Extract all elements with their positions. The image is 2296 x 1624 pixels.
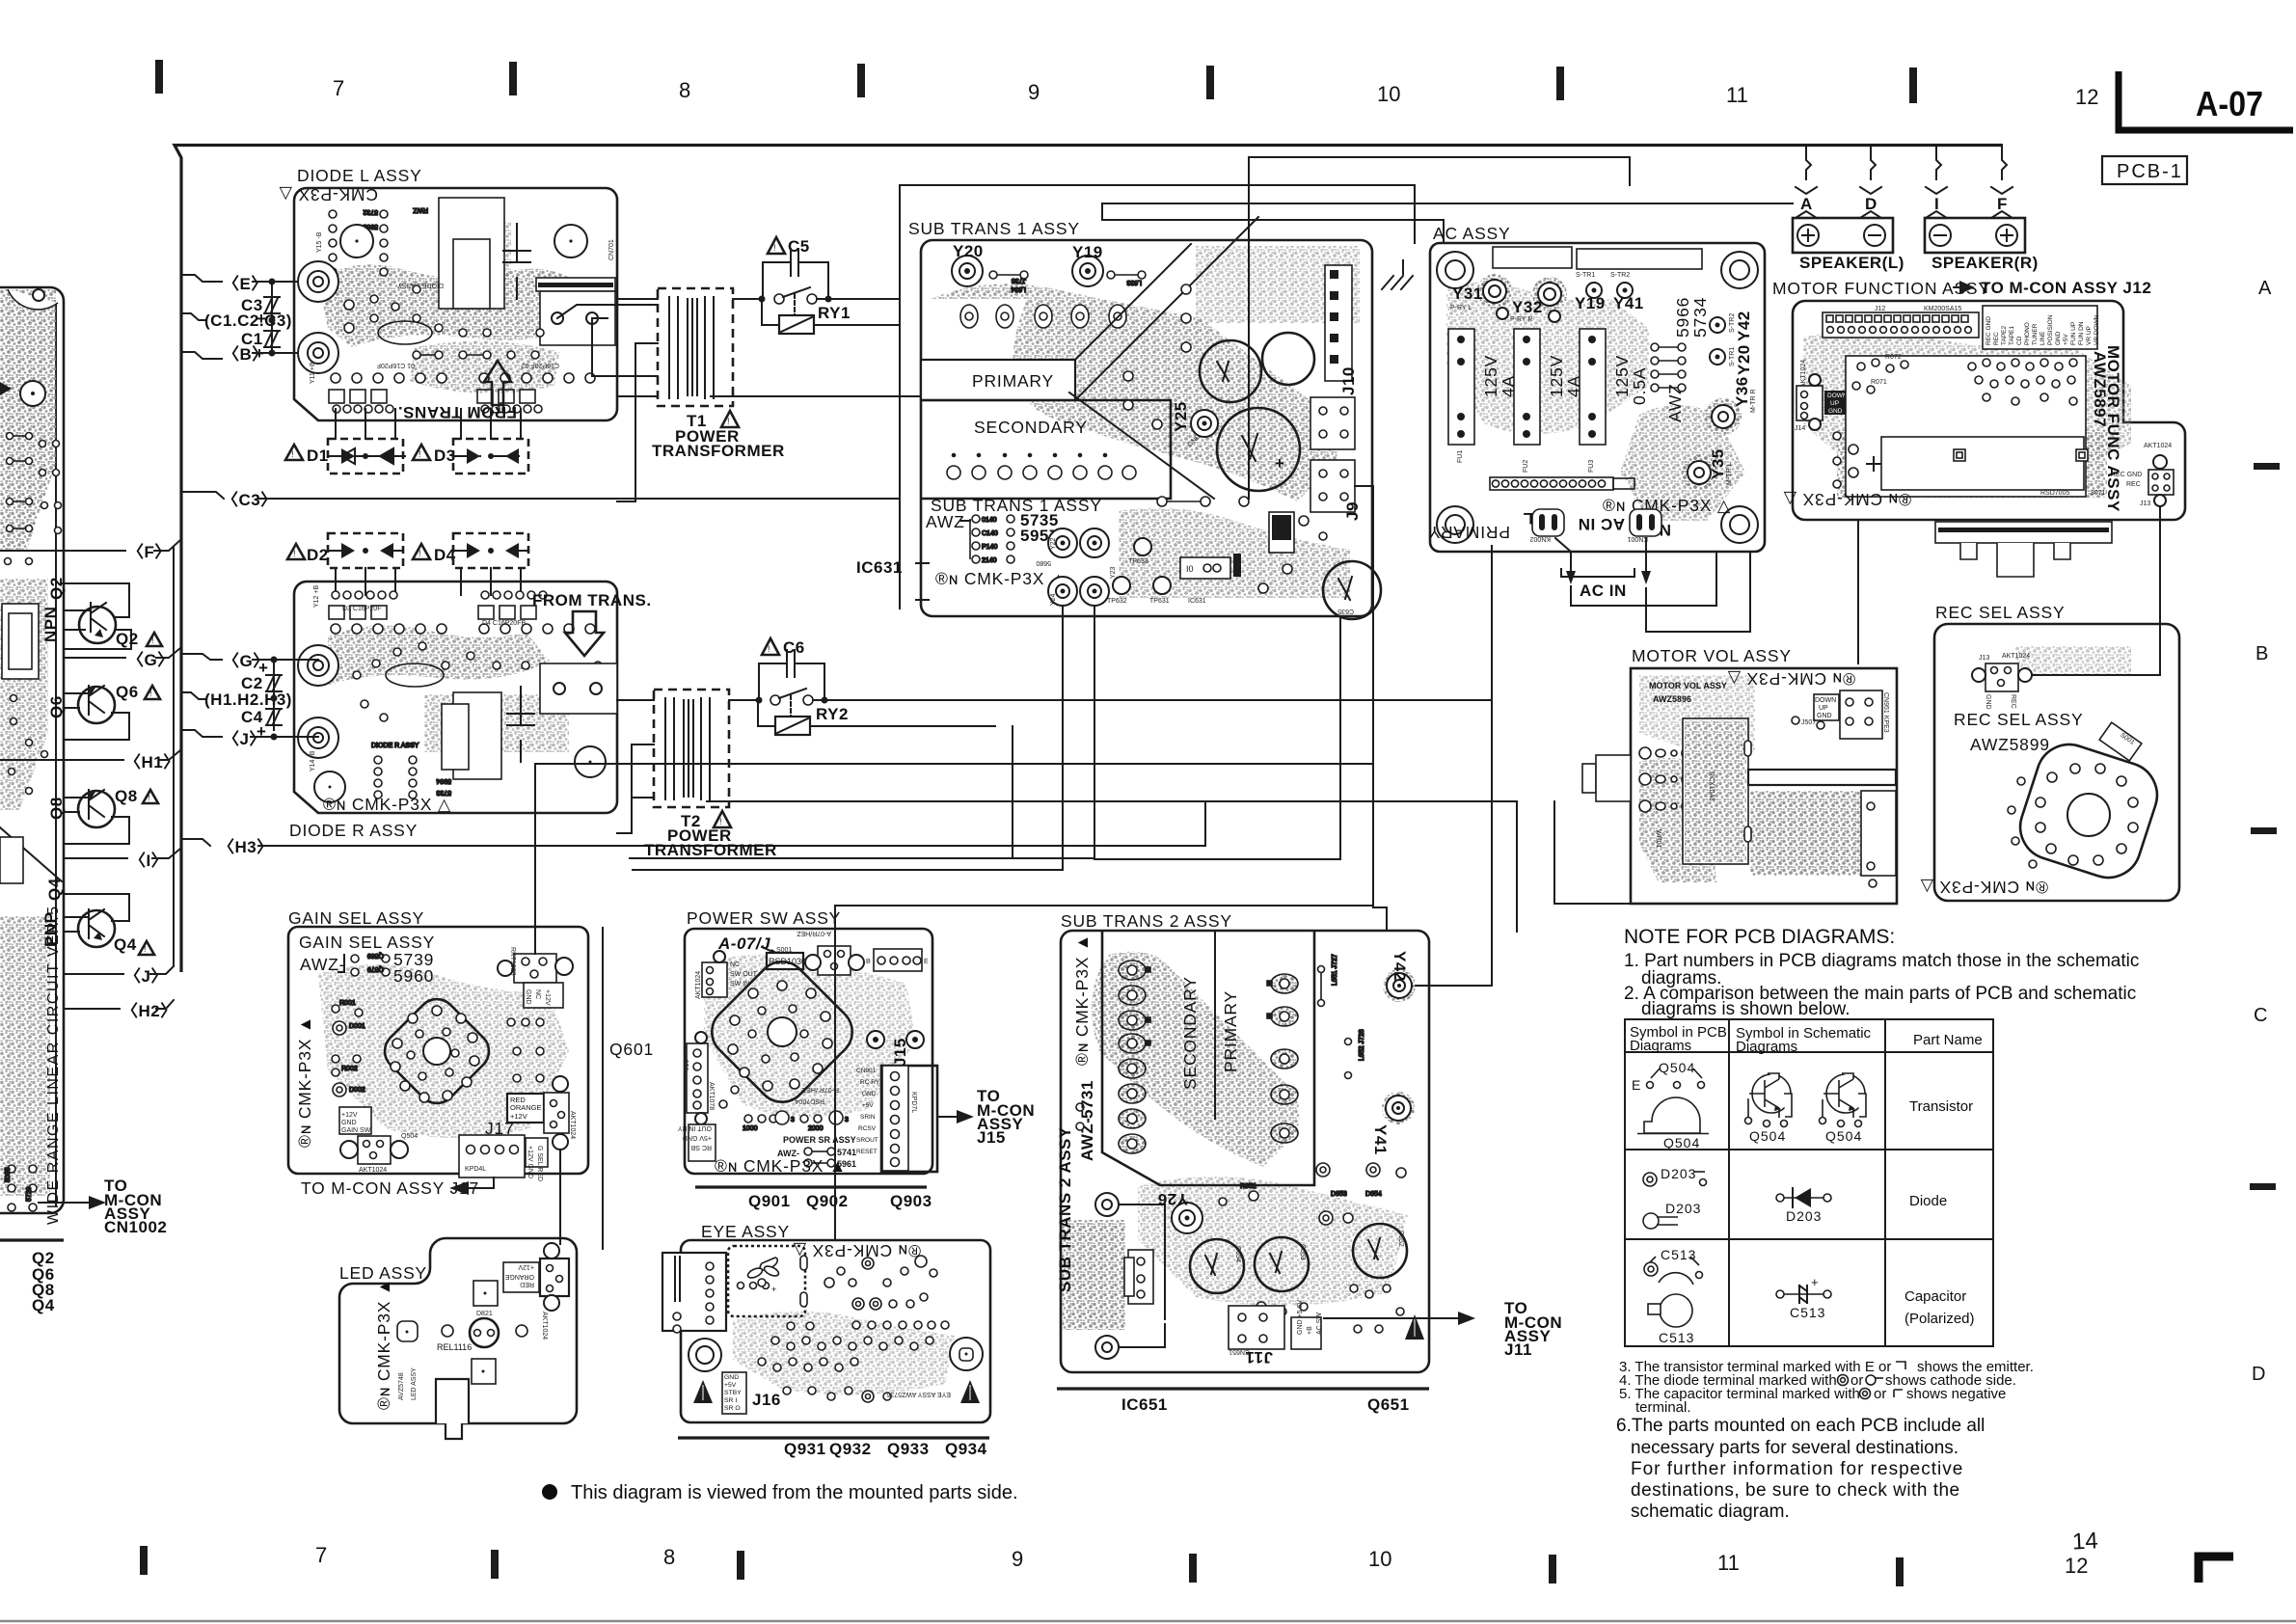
svg-text:A-07: A-07 [2196, 84, 2263, 123]
svg-text:MOTOR VOL ASSY: MOTOR VOL ASSY [1632, 646, 1792, 665]
svg-text:diagrams is shown below.: diagrams is shown below. [1641, 999, 1850, 1019]
svg-text:GND: GND [862, 1091, 877, 1097]
svg-text:CN901: CN901 [856, 1068, 877, 1074]
svg-text:OUT IN RY: OUT IN RY [678, 1124, 712, 1131]
svg-text:Y42: Y42 [1391, 951, 1409, 982]
svg-text:5732: 5732 [363, 208, 378, 215]
svg-text:SUB TRANS 2 ASSY: SUB TRANS 2 ASSY [1056, 1126, 1074, 1292]
svg-text:Q569: Q569 [367, 952, 384, 959]
svg-text:!: ! [291, 449, 294, 459]
svg-text:REC GND: REC GND [1985, 316, 1992, 345]
svg-text:NC: NC [534, 989, 541, 999]
svg-text:Q8: Q8 [115, 787, 138, 805]
svg-text:SROUT: SROUT [856, 1137, 878, 1144]
svg-text:+12V: +12V [544, 989, 551, 1006]
pad Y41 [1382, 1092, 1415, 1124]
svg-text:RC RY: RC RY [860, 1079, 880, 1086]
svg-text:AVZ5748: AVZ5748 [398, 1372, 405, 1400]
capacitor C631 big circle [1200, 340, 1261, 402]
node J [181, 730, 222, 737]
svg-text:A: A [1800, 195, 1813, 213]
svg-text:Y19: Y19 [1575, 294, 1606, 312]
svg-text:®ɴ CMK-P3X △: ®ɴ CMK-P3X △ [1920, 878, 2048, 897]
pad Y15 [340, 225, 373, 257]
mount hole right [950, 1338, 983, 1370]
svg-text:Q4: Q4 [45, 878, 64, 901]
circle pad lower [314, 771, 345, 802]
svg-text:Y14 -B: Y14 -B [310, 750, 316, 771]
svg-text:ORANGE: ORANGE [510, 1103, 542, 1112]
copper speckle DIODE R [328, 626, 550, 686]
svg-text:®ɴ CMK-P3X ▲: ®ɴ CMK-P3X ▲ [935, 569, 1067, 588]
node G left [64, 657, 125, 659]
svg-text:SUB TRANS 1 ASSY: SUB TRANS 1 ASSY [908, 219, 1080, 238]
wire J13 down to REC SEL [2159, 506, 2161, 624]
svg-text:GND: GND [1817, 713, 1832, 719]
pad row lower [947, 454, 1136, 480]
sheet label A-07 corner mark [2119, 71, 2293, 130]
node C1.C2.C3 [181, 313, 206, 320]
svg-text:3: 3 [845, 1117, 849, 1123]
svg-text:MOTOR FUNC ASSY: MOTOR FUNC ASSY [2104, 345, 2122, 512]
svg-text:Q2: Q2 [116, 630, 139, 648]
svg-text:J16: J16 [684, 1060, 690, 1070]
capacitor C6 [762, 638, 779, 655]
svg-text:RCX1043: RCX1043 [1708, 771, 1715, 800]
bus bar pads left [1095, 1193, 1119, 1216]
square pad upper [473, 1281, 498, 1306]
transformer T2 dashed box [654, 690, 729, 807]
reversed box RED ORANGE +12V [503, 1262, 539, 1292]
svg-text:Q4: Q4 [32, 1296, 55, 1314]
switch S2 (RY2 contact) [729, 699, 758, 701]
left pads R001 D001 R002 D002 [332, 1000, 365, 1096]
svg-text:SECONDARY: SECONDARY [974, 418, 1088, 437]
diode block D2 [328, 533, 403, 595]
wire T2 bottom long [707, 801, 1517, 932]
svg-text:D203: D203 [1661, 1166, 1696, 1181]
switch S1 (RY1 contact) [733, 298, 762, 300]
svg-text:D001: D001 [349, 1023, 365, 1030]
pad Y26 [1172, 1203, 1202, 1233]
zone dash B/C [2251, 827, 2277, 834]
box +12V GND G SEL RED [526, 1138, 548, 1167]
svg-text:C513: C513 [1661, 1247, 1696, 1262]
svg-text:SECONDARY: SECONDARY [1180, 976, 1200, 1090]
svg-text:RY2: RY2 [816, 705, 849, 723]
test points TP633 TP632 TP631 [1134, 538, 1151, 555]
svg-text:125V: 125V [1612, 355, 1632, 397]
bottom pads column [5, 1165, 37, 1211]
svg-text:TO M-CON ASSY J12: TO M-CON ASSY J12 [1981, 279, 2151, 297]
svg-text:AKT1024: AKT1024 [569, 1111, 576, 1139]
svg-text:Y26: Y26 [1157, 1190, 1188, 1208]
box GND +5.6V +B AC SW [1291, 1317, 1321, 1349]
connector J10 [1325, 265, 1352, 381]
svg-text:NC: NC [730, 961, 740, 968]
svg-text:C: C [2254, 1005, 2267, 1026]
relay RY2 [775, 717, 810, 735]
node H2 [64, 1008, 120, 1010]
svg-text:Y15 -B: Y15 -B [316, 231, 323, 253]
border tick bottom 12 [1896, 1557, 1904, 1586]
svg-text:RSD7005: RSD7005 [2040, 490, 2069, 497]
small pads grid left schematic [5, 433, 62, 795]
svg-text:P-RY R: P-RY R [1510, 316, 1532, 323]
svg-text:A-07/J: A-07/J [717, 934, 770, 953]
svg-text:FU1: FU1 [1457, 450, 1464, 463]
svg-text:CD: CD [2016, 336, 2023, 345]
svg-text:GND: GND [1828, 408, 1843, 415]
svg-text:AKT1024: AKT1024 [2002, 653, 2030, 660]
svg-text:RY1: RY1 [818, 304, 851, 322]
wire gain AKT1024 down to LED [559, 1150, 561, 1244]
svg-text:Y20: Y20 [1735, 344, 1753, 375]
svg-text:!: ! [727, 417, 730, 426]
svg-text:D1: D1 [307, 447, 329, 465]
capacitor C653 [1255, 1237, 1309, 1291]
node H1 [0, 759, 123, 761]
copper speckle REC SEL [2015, 646, 2131, 675]
capacitor footprint DIODE R [507, 687, 534, 762]
arrow TO M-CON ASSY CN1002 [39, 1202, 89, 1204]
svg-text:S-TR1: S-TR1 [1576, 272, 1595, 279]
svg-text:EYE ASSY: EYE ASSY [701, 1222, 790, 1241]
transistor PCB symbol Q504 [1632, 1060, 1709, 1150]
svg-text:Y25: Y25 [1172, 401, 1190, 432]
capacitor C632 circle [1262, 333, 1314, 385]
svg-text:CMK-P3X △: CMK-P3X △ [279, 185, 378, 204]
svg-text:REC: REC [1993, 332, 2000, 345]
svg-text:LINE: LINE [2039, 331, 2046, 345]
svg-text:F: F [1997, 195, 2008, 213]
svg-text:+5V GND: +5V GND [683, 1134, 712, 1141]
svg-text:UP: UP [1830, 400, 1839, 407]
left schematic board outline [0, 287, 64, 1213]
border tick top 8 [509, 62, 517, 95]
transformer T1 windings [669, 297, 714, 398]
svg-text:01 C16P20F: 01 C16P20F [377, 362, 415, 368]
note: This diagram is viewed from the mounted parts side [542, 1484, 557, 1500]
svg-text:Y42: Y42 [1735, 311, 1753, 341]
warning triangle left [693, 1380, 713, 1403]
svg-text:!: ! [144, 944, 147, 954]
board DIODE L ASSY outline [294, 188, 617, 420]
wire AC inlet L down [1571, 552, 1716, 606]
wire power sw to eye assy [835, 905, 1373, 907]
board GAIN SEL ASSY outline [288, 927, 588, 1174]
svg-text:POWER SW ASSY: POWER SW ASSY [687, 908, 841, 928]
svg-text:Y19: Y19 [1072, 243, 1103, 261]
svg-text:!: ! [719, 817, 722, 826]
pad Y25 [1191, 410, 1218, 437]
svg-text:shows negative: shows negative [1906, 1386, 2006, 1402]
label PCB-1 [2102, 156, 2187, 184]
wire Y42 right [1416, 546, 1492, 986]
white strip [1748, 770, 1896, 785]
warning triangle [1405, 1314, 1424, 1340]
svg-text:®ɴ CMK-P3X △: ®ɴ CMK-P3X △ [1603, 496, 1731, 515]
svg-text:TRANSFORMER: TRANSFORMER [652, 442, 785, 460]
svg-text:Diode: Diode [1909, 1193, 1947, 1209]
pad J ring [298, 717, 338, 758]
DOWN UP GND box [1814, 694, 1839, 720]
svg-text:®ɴ CMK-P3X △: ®ɴ CMK-P3X △ [1727, 669, 1855, 689]
capsule pads [1744, 741, 1751, 756]
connector J11 [1229, 1306, 1284, 1349]
svg-text:TP632: TP632 [1107, 598, 1127, 605]
box GND NC +12V [524, 983, 563, 1008]
svg-text:DIODE L ASSY: DIODE L ASSY [297, 166, 422, 185]
svg-text:3071: 3071 [2091, 490, 2106, 497]
svg-text:〈G〉: 〈G〉 [127, 650, 175, 669]
pad Y31 (P-RY L) [1477, 274, 1512, 309]
svg-text:CN951 KPE3: CN951 KPE3 [1882, 692, 1889, 733]
svg-text:C513: C513 [1790, 1305, 1825, 1320]
wire from CN701 to T1 [557, 305, 658, 318]
left connector block [662, 1253, 726, 1331]
connector AKT1024 top right [540, 1259, 569, 1296]
svg-text:®ɴ CMK-P3X ▲: ®ɴ CMK-P3X ▲ [295, 1015, 314, 1148]
svg-text:GAIN SEL ASSY: GAIN SEL ASSY [288, 908, 424, 928]
svg-text:KM200SA15: KM200SA15 [1924, 306, 1961, 312]
svg-text:AC SW: AC SW [1316, 1313, 1323, 1335]
volume jack left [1582, 764, 1596, 793]
diode block D4 [453, 533, 528, 595]
board AC ASSY outline [1430, 243, 1765, 552]
svg-text:Q2: Q2 [47, 577, 66, 600]
svg-text:Y41: Y41 [1371, 1124, 1390, 1155]
svg-text:Q903: Q903 [890, 1192, 932, 1210]
wire y211 to motor function [1102, 203, 1793, 220]
svg-text:UP: UP [1819, 705, 1828, 712]
pads J15 [867, 1031, 884, 1048]
svg-text:D: D [2252, 1364, 2265, 1385]
svg-text:J10: J10 [1339, 366, 1358, 395]
svg-text:PRIMARY: PRIMARY [1428, 523, 1510, 542]
arrow TO M-CON ASSY J11 [1324, 1317, 1458, 1319]
connector top right C2013 [514, 954, 556, 983]
svg-text:AC ASSY: AC ASSY [1433, 224, 1511, 243]
wire RY2 coil down [1012, 726, 1013, 858]
svg-text:+: + [258, 659, 268, 677]
svg-text:D002: D002 [349, 1087, 365, 1094]
svg-text:®ɴ CMK-P3X ▲: ®ɴ CMK-P3X ▲ [374, 1278, 393, 1410]
FROM TRANS arrow (up) [484, 361, 511, 405]
pads S-TR2 Y42 right [1710, 317, 1725, 333]
svg-text:For further information for re: For further information for respective [1631, 1459, 1963, 1479]
wire bundle vertical x933 [899, 185, 901, 609]
svg-text:J15: J15 [977, 1128, 1006, 1147]
svg-text:J16: J16 [752, 1391, 781, 1409]
svg-text:Y35: Y35 [1709, 448, 1727, 479]
board MOTOR FUNCTION ASSY outline [1793, 301, 2185, 520]
svg-text:Q504: Q504 [1825, 1128, 1862, 1144]
svg-text:〈J〉: 〈J〉 [223, 729, 266, 748]
svg-text:Y23: Y23 [1110, 566, 1117, 579]
J507 pad [1792, 717, 1799, 724]
svg-text:(Polarized): (Polarized) [1904, 1311, 1975, 1327]
svg-text:PCB-1: PCB-1 [2117, 161, 2183, 182]
zone dash C/D [2250, 1183, 2276, 1190]
diode block D1 [328, 409, 405, 474]
border tick top 10 [1206, 66, 1214, 99]
svg-text:WR01: WR01 [1655, 829, 1661, 849]
svg-text:TP633: TP633 [1128, 558, 1148, 565]
border tick top 12 [1909, 68, 1917, 103]
svg-text:VR DOWN: VR DOWN [2093, 314, 2100, 345]
svg-text:!: ! [293, 549, 296, 558]
board DIODE R ASSY outline [294, 582, 617, 813]
pads rows top DIODE R [329, 591, 595, 634]
svg-text:7: 7 [315, 1543, 327, 1567]
connector B/E top right [874, 949, 922, 971]
connector AKT1024 bottom left [339, 1107, 371, 1134]
label box GND +5V STBY SR I SR O [722, 1372, 746, 1414]
outer boundary top line [175, 146, 2002, 973]
svg-text:12: 12 [2065, 1554, 2088, 1578]
node H3 [181, 839, 210, 846]
electrolytic C635 bottom right [1323, 561, 1381, 619]
svg-text:REC: REC [2010, 694, 2016, 709]
svg-text:D653: D653 [1331, 1191, 1347, 1198]
rotary switch gain [377, 991, 497, 1111]
separator line Q601 [602, 928, 604, 1249]
svg-text:12: 12 [2075, 85, 2098, 109]
diode schematic symbol D203 [1776, 1188, 1831, 1224]
svg-text:D821: D821 [476, 1311, 493, 1317]
fuse FU2 [1514, 329, 1540, 445]
svg-text:!: ! [148, 793, 150, 802]
svg-text:Y12 +B: Y12 +B [313, 585, 320, 608]
wire drop D [1871, 145, 1876, 179]
svg-text:R002: R002 [341, 1066, 358, 1072]
pad Y20 [952, 256, 983, 286]
svg-text:G SEL RED: G SEL RED [536, 1146, 543, 1181]
svg-text:REC SEL ASSY: REC SEL ASSY [1954, 710, 2083, 729]
pads row bottom [719, 1086, 849, 1132]
svg-text:AC IN: AC IN [1578, 515, 1625, 533]
svg-text:EYE ASSY AWZ5736: EYE ASSY AWZ5736 [886, 1391, 951, 1397]
transistor schematic symbol Q504 (1) [1745, 1073, 1793, 1144]
relay RY1 [779, 315, 814, 334]
svg-text:D: D [1865, 195, 1877, 213]
capacitor C652 [1353, 1224, 1407, 1278]
svg-text:C652: C652 [1397, 1231, 1404, 1247]
mount hole circles [1437, 252, 1473, 288]
reversed rows 5733/5964 [371, 743, 451, 798]
signal name box [1983, 306, 2097, 349]
wire drop F [2002, 145, 2007, 179]
svg-text:®ɴ CMK-P3X △: ®ɴ CMK-P3X △ [1783, 490, 1911, 509]
svg-text:DOWN: DOWN [1827, 392, 1848, 399]
svg-text:R071: R071 [1871, 379, 1887, 386]
wire gain top connector up [535, 764, 1373, 954]
border tick bottom 8 [491, 1550, 499, 1579]
board EYE ASSY outline [681, 1240, 990, 1422]
pads upper lower section [1219, 1163, 1406, 1337]
svg-text:R001: R001 [339, 1000, 356, 1007]
border tick top 9 [857, 64, 865, 97]
svg-text:RC SB: RC SB [690, 1144, 712, 1150]
diode D3 warning [413, 445, 430, 460]
svg-text:ORANGE: ORANGE [504, 1273, 534, 1280]
jumper pads row Y20/Y19 [989, 271, 1146, 292]
diagonal board cut [0, 827, 62, 881]
svg-text:LED ASSY: LED ASSY [411, 1367, 418, 1400]
svg-text:M-TR R: M-TR R [1750, 390, 1757, 414]
svg-text:125V: 125V [1547, 355, 1566, 397]
capacitor C633 big circle [1217, 408, 1300, 491]
svg-text:+12V GND: +12V GND [527, 1146, 533, 1178]
svg-text:®ɴ CMK-P3X ▲: ®ɴ CMK-P3X ▲ [715, 1156, 847, 1176]
copper speckle DIODE L [318, 264, 583, 347]
svg-text:5964: 5964 [436, 777, 451, 784]
svg-text:+5V: +5V [862, 1102, 874, 1109]
svg-text:9: 9 [1028, 80, 1040, 104]
wire AC inlet N down [1646, 552, 1750, 632]
pad Y24 [1048, 577, 1077, 606]
slot rects top [1493, 247, 1572, 268]
underline IC651 Q651 [1057, 1387, 1429, 1390]
svg-text:Capacitor: Capacitor [1904, 1288, 1966, 1305]
svg-text:5731: 5731 [1078, 1080, 1096, 1119]
diode D2 warning [287, 544, 305, 559]
svg-text:CN701: CN701 [608, 239, 615, 260]
svg-text:2000: 2000 [808, 1125, 824, 1132]
svg-text:Y32: Y32 [1512, 298, 1543, 316]
svg-text:TUNER: TUNER [2032, 323, 2039, 345]
svg-text:D3 C16P20F: D3 C16P20F [342, 606, 381, 612]
svg-text:Diagrams: Diagrams [1736, 1039, 1797, 1055]
warning triangle right [960, 1380, 980, 1403]
svg-text:GAIN SEL ASSY: GAIN SEL ASSY [299, 933, 435, 952]
svg-text:DIODE R ASSY: DIODE R ASSY [289, 821, 418, 840]
transistor Q4 [64, 894, 154, 955]
svg-text:10: 10 [1368, 1547, 1391, 1571]
misc pads right [1123, 284, 1327, 593]
svg-text:TP631: TP631 [1149, 598, 1170, 605]
copper speckle POWER SW [704, 955, 916, 1118]
svg-text:GND +5.6V: GND +5.6V [1297, 1300, 1304, 1335]
svg-text:Y11 +B: Y11 +B [310, 362, 316, 384]
border tick top 7 [155, 60, 163, 94]
node G right column [181, 654, 222, 660]
svg-text:POWER SR ASSY: POWER SR ASSY [783, 1135, 856, 1145]
svg-text:+B: +B [1307, 1326, 1313, 1335]
svg-text:+: + [1811, 1275, 1819, 1289]
pad Y19 [1072, 256, 1103, 286]
bottom cutout [436, 1379, 469, 1439]
svg-text:Q902: Q902 [806, 1192, 849, 1210]
svg-text:WIDE RANGE LINEAR CIRCUIT VER.: WIDE RANGE LINEAR CIRCUIT VER.5 [45, 905, 62, 1225]
J15 frame [881, 1066, 937, 1172]
rotary switch power [702, 952, 863, 1113]
connector CN951 KPE3 [1840, 690, 1882, 739]
svg-text:Y31: Y31 [1452, 284, 1483, 303]
small connector boxes left [2, 604, 39, 679]
svg-text:A: A [2258, 278, 2272, 299]
svg-text:B: B [866, 959, 871, 965]
svg-text:!: ! [768, 644, 770, 654]
circle with dot [20, 381, 45, 406]
svg-text:CN651: CN651 [1229, 1348, 1250, 1355]
inner pads DIODE R [353, 642, 602, 721]
svg-text:REL1116: REL1116 [437, 1342, 472, 1352]
svg-text:M-TR L: M-TR L [1726, 463, 1733, 485]
inner PRIMARY/SECONDARY region [1102, 931, 1314, 1185]
svg-text:AKT1024: AKT1024 [541, 1312, 548, 1340]
